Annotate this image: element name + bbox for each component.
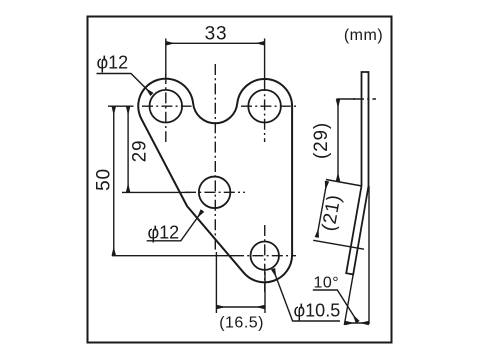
side dim (21) bottom extension bbox=[313, 240, 364, 249]
leader 10deg bbox=[313, 290, 358, 322]
dim 16.5 extension right bbox=[264, 272, 266, 313]
dim 16.5 extension left bbox=[215, 252, 217, 313]
phi glyph top bar 10.5 bbox=[300, 304, 302, 309]
dim 29 bottom extension bbox=[122, 191, 190, 193]
dim 50 line bbox=[113, 106, 115, 256]
side ref vertical line bbox=[368, 186, 370, 324]
centerline TL hole vertical bbox=[165, 73, 167, 142]
dim 29 line bbox=[127, 106, 129, 192]
side dim (29) line bbox=[337, 99, 339, 181]
phi glyph top bar center bbox=[154, 226, 156, 231]
side centerline top hole bbox=[353, 98, 376, 100]
plate outline front view bbox=[138, 79, 292, 283]
centerline bottom hole horizontal bbox=[233, 255, 296, 257]
centerline main vertical axis bbox=[214, 64, 216, 250]
svg-text:(16.5): (16.5) bbox=[219, 315, 264, 332]
dim 33 extension line left bbox=[165, 39, 167, 77]
side view straight strip bbox=[362, 72, 369, 186]
hole TL phi12 bbox=[150, 90, 183, 123]
centerline bottom hole vertical bbox=[264, 225, 266, 292]
hole center phi12 bbox=[199, 177, 231, 209]
side bend extension line bbox=[326, 180, 362, 187]
side dim (29) top extension bbox=[337, 98, 356, 100]
centerline center hole horizontal bbox=[185, 191, 245, 193]
dim 50 bottom extension bbox=[112, 255, 233, 257]
svg-text:φ12: φ12 bbox=[148, 223, 180, 243]
svg-text:(29): (29) bbox=[311, 122, 332, 159]
centerline TR hole horizontal bbox=[241, 105, 298, 107]
svg-text:φ10.5: φ10.5 bbox=[294, 301, 341, 321]
svg-text:29: 29 bbox=[130, 140, 151, 163]
side bent extension line bbox=[344, 274, 353, 325]
svg-text:50: 50 bbox=[93, 168, 114, 191]
border frame bbox=[88, 17, 392, 343]
leader phi10.5 bbox=[273, 269, 340, 321]
svg-text:10°: 10° bbox=[314, 275, 340, 292]
leader phi12 center bbox=[147, 211, 203, 241]
dim 50/29 top extension bbox=[108, 105, 134, 107]
dim 33 line bbox=[166, 42, 265, 44]
centerline TR hole vertical bbox=[264, 80, 266, 142]
side angular dim line 10deg bbox=[345, 322, 369, 324]
hole bottom phi10.5 bbox=[251, 242, 279, 270]
svg-text:(mm): (mm) bbox=[344, 27, 383, 44]
phi glyph top bar TL bbox=[103, 56, 105, 61]
dim 33 extension line right bbox=[264, 39, 266, 79]
side view bent strip bbox=[346, 186, 368, 274]
leader phi12 TL bbox=[97, 74, 153, 95]
side dim (21) line bbox=[317, 181, 327, 238]
svg-text:(21): (21) bbox=[318, 193, 345, 233]
centerline TL hole horizontal bbox=[142, 105, 192, 107]
dim 16.5 line bbox=[216, 306, 265, 308]
svg-text:φ12: φ12 bbox=[97, 53, 129, 73]
hole TR phi12 bbox=[248, 90, 281, 123]
svg-text:33: 33 bbox=[205, 24, 228, 45]
